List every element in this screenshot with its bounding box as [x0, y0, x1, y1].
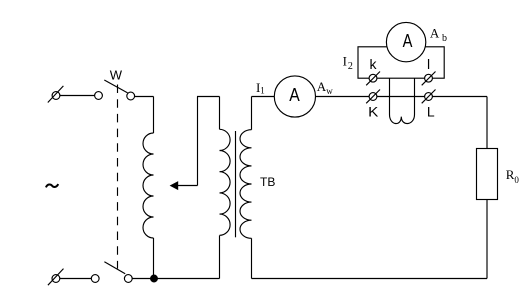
svg-text:A: A [289, 85, 300, 105]
svg-text:K: K [368, 104, 379, 120]
svg-text:A: A [430, 25, 440, 40]
svg-text:w: w [326, 86, 333, 96]
svg-text:k: k [370, 56, 378, 72]
svg-text:W: W [110, 68, 123, 83]
svg-text:L: L [427, 104, 435, 120]
svg-text:0: 0 [514, 175, 519, 185]
svg-text:b: b [442, 33, 447, 44]
svg-text:1: 1 [260, 86, 265, 96]
svg-text:I: I [343, 54, 347, 69]
svg-text:R: R [506, 167, 515, 182]
svg-text:l: l [427, 56, 430, 72]
svg-text:2: 2 [348, 61, 353, 72]
svg-text:A: A [403, 31, 413, 51]
svg-text:TB: TB [260, 175, 275, 189]
